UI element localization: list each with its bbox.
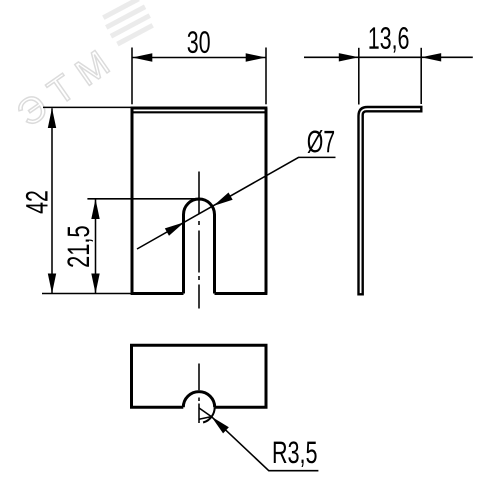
R3,5 arrow: [211, 417, 228, 434]
wire bottom left: [131, 292, 184, 295]
dim 30: [132, 48, 266, 105]
notch semicircle: [183, 392, 214, 408]
R3,5 leader: [211, 417, 318, 471]
label 13,6: [369, 27, 408, 53]
dia 7 arrow lower: [165, 222, 184, 236]
watermark ETM logo: [15, 0, 154, 127]
slot outline: [184, 199, 215, 294]
ext line 13,6 right: [420, 48, 422, 104]
wire right edge: [265, 108, 268, 294]
dia 7 arrow upper: [213, 192, 232, 206]
wire top edge line lower: [132, 111, 266, 113]
notch arc extension: [203, 407, 215, 422]
ext line 13,6 left: [358, 48, 360, 105]
wire top edge line upper: [131, 107, 268, 110]
dim 13,6: [304, 48, 473, 105]
dia 7 label: [308, 130, 335, 153]
dim line 42: [51, 108, 53, 293]
arrow 30 right: [246, 53, 266, 61]
dim line 21,5: [95, 199, 97, 293]
arrow 21,5 top: [91, 199, 99, 219]
dim 21,5: [87, 199, 201, 293]
arrow 42 top: [48, 108, 56, 128]
label 21,5: [67, 226, 93, 267]
dim line 30: [132, 57, 265, 59]
R3,5 label: [274, 441, 317, 467]
dim 42: [42, 107, 131, 293]
arrow 42 bottom: [48, 274, 56, 294]
wire bottom right: [215, 292, 268, 295]
label 30: [188, 31, 210, 53]
arrow 30 left: [132, 53, 152, 61]
ext line 30 right: [265, 48, 267, 105]
centerline front: [198, 172, 200, 309]
label 42: [26, 191, 48, 213]
arrow 13,6 right: [421, 53, 441, 61]
arrow 13,6 left: [339, 53, 359, 61]
bottom view outline: [132, 345, 267, 407]
wire left edge: [131, 108, 134, 294]
dim line 13,6: [304, 56, 473, 58]
arrow 21,5 bottom: [91, 274, 99, 294]
ext line 30 left: [131, 48, 133, 105]
side profile: [359, 107, 422, 294]
dia 7 leader: [137, 157, 336, 249]
centerline bottom view: [198, 364, 200, 424]
ext line 21,5 top: [87, 198, 201, 200]
open arrowhead radius: [199, 408, 212, 419]
ext line 42 top: [43, 106, 131, 108]
ext line bottom shared: [42, 293, 131, 295]
